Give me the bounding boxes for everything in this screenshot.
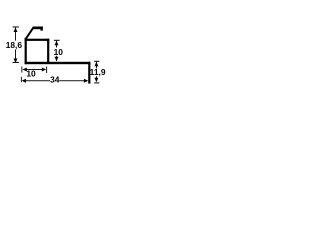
dimension 10 horizontal left extension line: [20, 67, 23, 73]
dimension 18,6 bottom tick: [13, 62, 19, 63]
dimension 18,6 up arrow: [14, 28, 18, 32]
dimension 34 left shaft: [25, 79, 50, 82]
profile hook top flange: [33, 27, 43, 30]
dimension 10 horizontal left arrow: [22, 68, 26, 72]
profile box top wall: [25, 39, 50, 41]
svg-text:10: 10: [54, 47, 64, 57]
profile right step: [88, 62, 90, 84]
dimension 34 left arrow: [22, 79, 26, 83]
dimension 34 left extension line: [20, 77, 23, 82]
dimension 10 vertical lower shaft: [55, 56, 58, 61]
dimension 10 vertical up arrow: [55, 41, 59, 45]
dimension 10 horizontal right arrow: [42, 68, 46, 72]
dimension 11,9 bottom tick: [94, 82, 99, 83]
profile diagonal web: [25, 27, 36, 39]
svg-text:34: 34: [50, 74, 60, 84]
dimension 11,9 top tick: [94, 61, 99, 62]
dimension 11,9 lower shaft: [95, 76, 98, 78]
dimension 34 right arrow: [84, 79, 88, 83]
dimension 10 vertical upper shaft: [55, 41, 58, 48]
svg-text:11,9: 11,9: [90, 67, 106, 77]
dimension 10 vertical down arrow: [55, 57, 59, 61]
dimension 18,6 lower shaft: [14, 50, 17, 60]
dimension 11,9 down arrow: [94, 78, 98, 82]
dimension 11,9 up arrow: [94, 62, 98, 66]
profile left wall: [25, 38, 27, 64]
dimension 34 right shaft: [59, 79, 85, 82]
svg-text:10: 10: [26, 69, 36, 79]
dimension 10 horizontal shaft: [26, 68, 43, 71]
dimension 10 horizontal right extension line: [45, 67, 48, 74]
dimension 18,6 top tick: [13, 27, 19, 28]
profile box right wall: [47, 39, 49, 62]
profile hook end tab: [40, 27, 42, 31]
dimension 10 vertical top tick: [54, 40, 60, 41]
dimension 18,6 upper shaft: [14, 28, 17, 41]
svg-text:18,6: 18,6: [6, 40, 23, 50]
dimension 11,9 upper shaft: [95, 62, 98, 69]
profile base flange: [25, 62, 91, 64]
dimension 18,6 down arrow: [14, 59, 18, 63]
